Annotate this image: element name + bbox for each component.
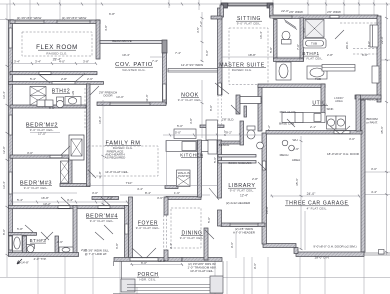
- svg-text:2'-8": 2'-8": [327, 53, 333, 57]
- svg-text:VAULTED CLG.: VAULTED CLG.: [122, 68, 146, 72]
- svg-text:3'-0": 3'-0": [92, 191, 98, 195]
- svg-text:9'-0" FLAT CEIL.: 9'-0" FLAT CEIL.: [178, 98, 203, 102]
- svg-text:22'-0": 22'-0": [281, 9, 289, 13]
- svg-text:9'-0" FLAT CEIL.: 9'-0" FLAT CEIL.: [237, 22, 262, 26]
- svg-text:12'-0" 9'0" WDW: 12'-0" 9'0" WDW: [181, 63, 203, 67]
- svg-text:19'-4": 19'-4": [122, 53, 130, 57]
- svg-text:2'0" WDW: 2'0" WDW: [289, 10, 303, 14]
- svg-text:13'-2": 13'-2": [43, 202, 51, 206]
- svg-text:5'-0": 5'-0": [177, 124, 183, 128]
- svg-text:20'-8": 20'-8": [265, 206, 269, 214]
- svg-text:6'-0": 6'-0": [49, 106, 55, 110]
- svg-text:9'-6": 9'-6": [230, 242, 234, 248]
- svg-text:19'-0": 19'-0": [158, 259, 166, 263]
- svg-text:2'-1": 2'-1": [310, 125, 316, 129]
- svg-text:BEAM ABOVE: BEAM ABOVE: [112, 39, 132, 43]
- svg-text:5'-8": 5'-8": [269, 47, 273, 53]
- svg-text:8'-0": 8'-0": [209, 105, 213, 111]
- svg-text:7'-0": 7'-0": [107, 196, 113, 200]
- svg-text:5'-4": 5'-4": [17, 198, 23, 202]
- svg-text:5'-4": 5'-4": [30, 77, 36, 81]
- svg-text:3'-5": 3'-5": [196, 27, 200, 33]
- svg-text:(2) 3'0"x5'0" WDW: (2) 3'0"x5'0" WDW: [62, 16, 87, 20]
- svg-text:6'-0": 6'-0": [141, 261, 147, 265]
- svg-text:13'-4": 13'-4": [2, 91, 6, 99]
- svg-text:12'-4": 12'-4": [240, 194, 248, 198]
- svg-text:WH: WH: [293, 138, 298, 142]
- svg-text:TUB: TUB: [315, 77, 321, 81]
- svg-text:SINK: SINK: [326, 107, 333, 111]
- svg-text:17'-0": 17'-0": [38, 132, 46, 136]
- svg-text:3'-4": 3'-4": [35, 60, 41, 64]
- svg-text:BOOK SHELVES: BOOK SHELVES: [228, 161, 251, 165]
- svg-text:DOOR: DOOR: [104, 94, 114, 98]
- svg-text:2'-8": 2'-8": [252, 177, 258, 181]
- svg-text:3'-0": 3'-0": [371, 167, 377, 171]
- svg-text:5'-0": 5'-0": [207, 217, 211, 223]
- svg-text:35'-6": 35'-6": [380, 126, 384, 134]
- svg-text:9'-0"x8'-0" O.H. DOOR (x2 SIM.: 9'-0"x8'-0" O.H. DOOR (x2 SIM.): [313, 245, 356, 249]
- svg-text:6'-8": 6'-8": [109, 12, 115, 16]
- svg-text:(2) 2x12 HEADER: (2) 2x12 HEADER: [226, 201, 251, 205]
- svg-text:(2) 3'0"x5'0" WDW: (2) 3'0"x5'0" WDW: [17, 16, 42, 20]
- svg-text:BENCH: BENCH: [219, 143, 230, 147]
- svg-text:@ 7'-0" HDR HT.: @ 7'-0" HDR HT.: [85, 252, 108, 256]
- svg-text:AS REQUIRED: AS REQUIRED: [105, 156, 127, 160]
- svg-text:4" FLAT CEIL.: 4" FLAT CEIL.: [307, 207, 328, 211]
- svg-text:3'-8": 3'-8": [189, 118, 193, 124]
- svg-text:12'-0": 12'-0": [2, 146, 6, 154]
- svg-text:22'-0": 22'-0": [380, 36, 384, 44]
- svg-text:HDR. CEIL.: HDR. CEIL.: [139, 277, 156, 281]
- svg-text:3'-0": 3'-0": [349, 137, 355, 141]
- svg-text:7'-2": 7'-2": [199, 21, 203, 27]
- svg-text:BTH#1: BTH#1: [302, 51, 319, 56]
- svg-text:5'-8": 5'-8": [17, 227, 23, 231]
- svg-text:35'-6": 35'-6": [295, 178, 299, 186]
- svg-text:14'-0": 14'-0": [116, 95, 124, 99]
- svg-text:4'-0": 4'-0": [302, 27, 306, 33]
- svg-text:3'-4": 3'-4": [14, 60, 20, 64]
- svg-text:24'-0": 24'-0": [307, 192, 316, 196]
- svg-text:3'-0": 3'-0": [27, 151, 33, 155]
- svg-text:10'-0" FLAT CEIL.: 10'-0" FLAT CEIL.: [190, 269, 214, 273]
- svg-text:9'-4": 9'-4": [169, 243, 173, 249]
- svg-text:7'10": 7'10": [126, 181, 133, 185]
- svg-text:3'-8": 3'-8": [83, 60, 89, 64]
- svg-text:PNT FRENCH: PNT FRENCH: [358, 98, 377, 102]
- svg-text:14'-8": 14'-8": [21, 261, 29, 265]
- svg-text:9'-0" FLAT CEIL.: 9'-0" FLAT CEIL.: [136, 226, 161, 230]
- svg-text:A 7'-0" HEADER: A 7'-0" HEADER: [233, 231, 256, 235]
- svg-text:9'-0" FLAT CEIL.: 9'-0" FLAT CEIL.: [299, 57, 324, 61]
- svg-text:11'-0": 11'-0": [98, 171, 102, 178]
- svg-text:6'-0": 6'-0": [205, 50, 209, 56]
- svg-text:BASE CAB.: BASE CAB.: [279, 122, 295, 126]
- svg-text:5'-0": 5'-0": [175, 131, 181, 135]
- svg-text:3'-6": 3'-6": [157, 196, 163, 200]
- svg-text:AREA: AREA: [335, 99, 343, 103]
- svg-text:10'-4": 10'-4": [98, 116, 102, 124]
- svg-text:8'-0": 8'-0": [367, 41, 371, 47]
- svg-text:14'-0" FLAT CEIL.: 14'-0" FLAT CEIL.: [105, 170, 129, 174]
- svg-text:BTH#3: BTH#3: [30, 238, 47, 243]
- svg-text:18'-0"x8'-0" O.H. DOOR: 18'-0"x8'-0" O.H. DOOR: [327, 152, 360, 156]
- svg-text:4'-4": 4'-4": [137, 187, 143, 191]
- svg-text:PANTRY: PANTRY: [178, 174, 190, 178]
- svg-text:16'-8": 16'-8": [41, 196, 49, 200]
- svg-text:2'8" SLD.: 2'8" SLD.: [222, 118, 235, 122]
- svg-text:13'-4": 13'-4": [2, 181, 6, 189]
- svg-text:RAISED CLG.: RAISED CLG.: [232, 68, 253, 72]
- svg-text:4'-0": 4'-0": [59, 60, 65, 64]
- svg-text:5'-6": 5'-6": [213, 157, 217, 163]
- svg-text:4'-8": 4'-8": [104, 25, 108, 31]
- svg-text:8'-4": 8'-4": [145, 191, 151, 195]
- svg-text:7'-2": 7'-2": [267, 125, 271, 131]
- svg-text:or PANT.: or PANT.: [366, 121, 378, 125]
- svg-text:28'-0" O.H.: 28'-0" O.H.: [315, 256, 330, 260]
- svg-text:2'-6": 2'-6": [293, 147, 299, 151]
- svg-text:7'-4": 7'-4": [152, 59, 158, 63]
- svg-text:9'-0" FLAT CEIL.: 9'-0" FLAT CEIL.: [180, 236, 205, 240]
- svg-text:2'-8": 2'-8": [61, 77, 67, 81]
- svg-text:MST. CLOS.: MST. CLOS.: [280, 110, 297, 114]
- svg-text:9'-0" FLAT CEIL.: 9'-0" FLAT CEIL.: [230, 189, 255, 193]
- svg-text:4'-0" TYP.: 4'-0" TYP.: [33, 257, 46, 261]
- svg-text:W.I.C.: W.I.C.: [345, 41, 349, 49]
- svg-text:1'-6": 1'-6": [174, 191, 180, 195]
- svg-text:9'-0" FLAT CEIL.: 9'-0" FLAT CEIL.: [24, 186, 49, 190]
- svg-text:6'-8": 6'-8": [115, 243, 119, 249]
- svg-text:LIN: LIN: [71, 91, 75, 96]
- svg-text:2'-6": 2'-6": [87, 77, 93, 81]
- svg-text:3'-4": 3'-4": [67, 198, 73, 202]
- svg-text:7'-0": 7'-0": [296, 44, 300, 50]
- svg-text:9'-6": 9'-6": [253, 263, 257, 269]
- svg-text:AREA: AREA: [292, 158, 300, 162]
- svg-text:MECH: MECH: [280, 153, 289, 157]
- svg-text:9'-0" FLAT CEIL.: 9'-0" FLAT CEIL.: [90, 219, 115, 223]
- svg-text:16'-4": 16'-4": [259, 31, 263, 39]
- svg-text:4'-4": 4'-4": [371, 190, 377, 194]
- svg-text:18'-8": 18'-8": [248, 53, 256, 57]
- svg-text:RAISED CLG.: RAISED CLG.: [46, 52, 67, 56]
- svg-text:KITCHEN: KITCHEN: [180, 153, 203, 158]
- svg-text:TUB: TUB: [311, 42, 317, 46]
- svg-text:8'-0": 8'-0": [2, 229, 6, 235]
- svg-text:11'-6": 11'-6": [145, 94, 149, 101]
- svg-text:9'-2": 9'-2": [226, 131, 232, 135]
- svg-text:7'-4": 7'-4": [175, 51, 181, 55]
- svg-text:2'-6": 2'-6": [57, 240, 63, 244]
- svg-text:6'-0": 6'-0": [362, 53, 368, 57]
- svg-text:2'0" WDW: 2'0" WDW: [327, 10, 341, 14]
